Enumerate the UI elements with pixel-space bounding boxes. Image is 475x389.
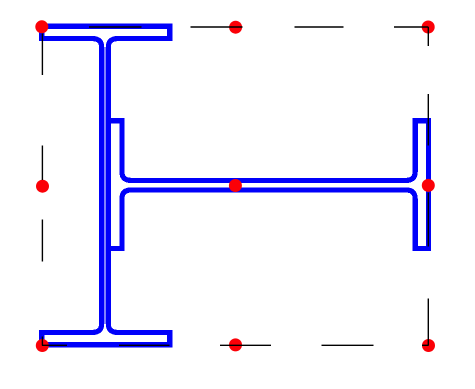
left system line dash 3 xyxy=(41,220,43,262)
node N1 top-left (red dot) xyxy=(35,20,48,33)
right system line dash 3 xyxy=(427,193,429,247)
left system line dash 1 xyxy=(41,34,43,76)
top system line dash 4 xyxy=(394,26,428,28)
node N7 bottom-left (red dot) xyxy=(36,339,49,352)
left system line dash 2 xyxy=(41,146,43,181)
bottom system line dash 2 xyxy=(119,344,170,346)
beam I-section profile (horizontal member, blue) xyxy=(108,121,428,249)
node N6 mid-right (red dot) xyxy=(422,179,435,192)
bottom system line dash 1 xyxy=(42,344,67,346)
top system line dash 1 xyxy=(89,26,142,28)
node N4 mid-left (red dot) xyxy=(36,180,49,193)
left system line dash 4 xyxy=(41,337,43,346)
node N2 top-center (red dot) xyxy=(229,21,242,34)
node N8 bottom-center (red dot) xyxy=(229,338,242,351)
top system line dash 3 xyxy=(295,26,344,28)
right system line dash 1 xyxy=(427,27,429,46)
node N5 center (red dot) xyxy=(229,179,242,192)
right system line dash 2 xyxy=(427,94,429,146)
bottom system line dash 3 xyxy=(220,344,271,346)
node N9 bottom-right (red dot) xyxy=(422,339,435,352)
column I-section profile (vertical member, blue) xyxy=(42,26,170,345)
top system line dash 2 xyxy=(191,26,243,28)
bottom system line dash 4 xyxy=(322,344,374,346)
node N3 top-right (red dot) xyxy=(422,21,435,34)
right system line dash 4 xyxy=(427,299,429,346)
bottom system line dash 5 xyxy=(422,344,429,346)
